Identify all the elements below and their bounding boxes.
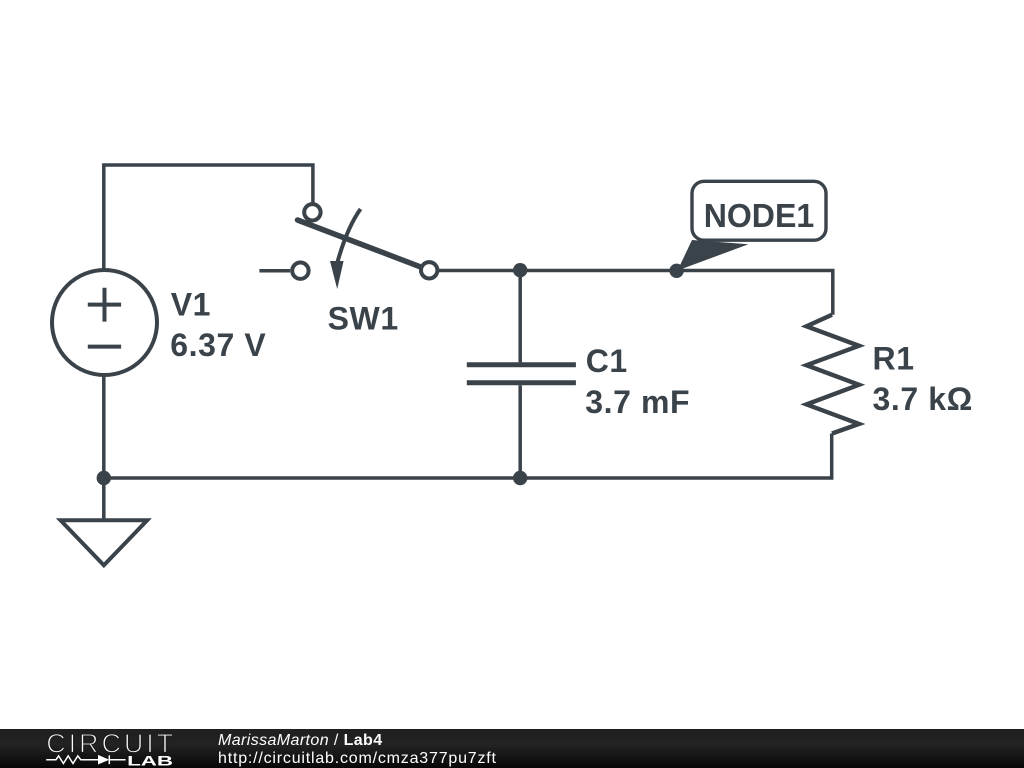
svg-text:R1: R1 <box>873 340 915 376</box>
svg-text:NODE1: NODE1 <box>704 198 815 235</box>
svg-text:V1: V1 <box>171 287 211 323</box>
svg-text:3.7 mF: 3.7 mF <box>585 384 690 420</box>
svg-text:3.7 kΩ: 3.7 kΩ <box>873 381 973 417</box>
svg-text:6.37 V: 6.37 V <box>170 327 266 363</box>
svg-text:C1: C1 <box>586 343 628 379</box>
svg-text:SW1: SW1 <box>328 301 399 337</box>
svg-text:LAB: LAB <box>127 752 173 768</box>
